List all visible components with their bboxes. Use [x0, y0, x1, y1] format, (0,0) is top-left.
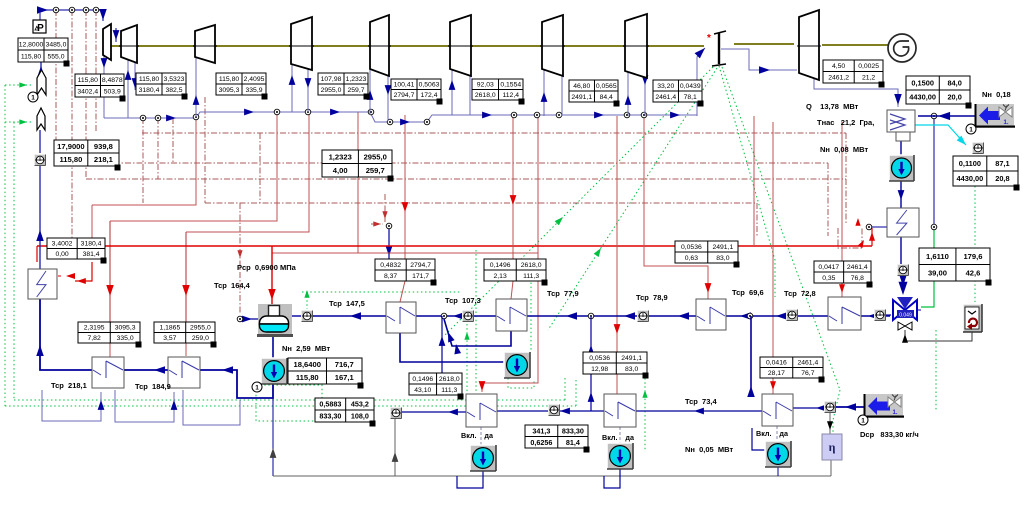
node collector x559 — [556, 112, 562, 118]
svg-text:115,80: 115,80 — [139, 76, 160, 83]
wire heater B riser — [590, 316, 592, 411]
table stage 6 — [472, 79, 523, 100]
svg-text:81,4: 81,4 — [566, 438, 580, 447]
heater 6 LPH — [696, 299, 726, 330]
deaerator — [258, 304, 292, 335]
wire green deaerator vent horizontal — [302, 291, 460, 293]
svg-text:833,30: 833,30 — [319, 412, 341, 421]
wire green vertical pump 5 vent — [530, 262, 532, 352]
wire gland steam dash-dot horizontal y179 — [86, 178, 846, 180]
node top header 4 — [93, 7, 99, 13]
shaft line across stages — [119, 45, 139, 47]
wire feed pump discharge loop — [200, 370, 273, 398]
svg-text:112,4: 112,4 — [503, 92, 520, 99]
heater C drain cooler — [762, 394, 793, 426]
target before eta meter — [825, 402, 836, 413]
control valve — [893, 300, 905, 320]
svg-text:172,4: 172,4 — [420, 92, 437, 99]
wire gland steam vertical right x846 — [845, 133, 847, 225]
wire drain collector under turbine — [104, 112, 697, 122]
svg-text:78,1: 78,1 — [684, 94, 697, 101]
svg-text:2618,0: 2618,0 — [475, 92, 496, 99]
svg-text:0,1496: 0,1496 — [490, 262, 511, 269]
wire valve outlet to green — [918, 309, 921, 311]
wire stage2 right leg — [134, 62, 136, 90]
wire extraction to heater 6 — [644, 116, 708, 299]
svg-text:381,4: 381,4 — [83, 251, 100, 258]
wire target to deaerator stub — [292, 315, 301, 317]
wire heater C riser — [750, 316, 752, 394]
wire extraction steam to heater A — [482, 116, 538, 392]
svg-text:3095,3: 3095,3 — [219, 87, 240, 94]
boiler symbol P — [33, 20, 46, 33]
wire pump A loop — [457, 470, 483, 488]
wire extraction to heater 3 table — [404, 115, 406, 259]
wire green air line left vertical 2 — [13, 122, 15, 400]
svg-text:0,0439: 0,0439 — [680, 83, 701, 90]
svg-text:555,0: 555,0 — [47, 53, 64, 60]
table heater 1 — [78, 322, 140, 343]
wire green air line bottom horizontal 1 — [14, 399, 565, 401]
svg-text:46,80: 46,80 — [573, 83, 590, 90]
svg-text:2,13: 2,13 — [494, 273, 507, 280]
target before heater A — [391, 408, 402, 419]
svg-text:4,50: 4,50 — [832, 63, 845, 70]
svg-text:2461,2: 2461,2 — [828, 75, 849, 82]
svg-text:2794,7: 2794,7 — [394, 92, 415, 99]
svg-text:0,1500: 0,1500 — [911, 79, 934, 88]
wire stage4 left leg — [291, 64, 293, 112]
pump C — [765, 441, 791, 467]
svg-text:17,9000: 17,9000 — [57, 142, 84, 151]
svg-text:Тср 72,8: Тср 72,8 — [784, 289, 816, 298]
wire eta meter drop — [829, 413, 831, 434]
table HX1 — [47, 238, 105, 259]
svg-text:0,00: 0,00 — [55, 251, 68, 258]
node top header 2 — [69, 7, 75, 13]
svg-text:84,4: 84,4 — [600, 94, 613, 101]
svg-text:115,80: 115,80 — [59, 155, 82, 164]
node ejector branch at gland cooler — [931, 224, 937, 230]
wire coupling to last stage — [721, 49, 797, 70]
svg-text:115,80: 115,80 — [296, 373, 319, 382]
gland steam cooler HX2 — [887, 208, 919, 237]
wire stage8 left leg — [627, 71, 629, 116]
svg-text:7,82: 7,82 — [88, 335, 101, 342]
wire stage5 right leg — [387, 69, 389, 121]
svg-text:1: 1 — [861, 418, 865, 425]
svg-text:2,4095: 2,4095 — [244, 76, 265, 83]
svg-text:76,7: 76,7 — [801, 370, 814, 377]
svg-text:2955,0: 2955,0 — [364, 152, 387, 161]
target before deaerator — [302, 311, 313, 322]
wire extraction header stage4 to heater 1 — [110, 111, 277, 221]
wire extraction to heater 7 — [841, 122, 843, 299]
wire HX1 to boiler via flag — [39, 166, 41, 269]
wire gland condensate to heater3 table — [388, 228, 390, 259]
svg-text:8,4878: 8,4878 — [102, 77, 123, 84]
wire green vertical heater4 vent — [466, 324, 468, 400]
svg-text:*: * — [707, 33, 711, 44]
wire gland steam dash-dot horizontal y163 — [56, 162, 828, 164]
svg-text:4430,00: 4430,00 — [957, 174, 984, 183]
svg-text:20,8: 20,8 — [995, 174, 1009, 183]
wire flag1 to boiler table — [40, 62, 42, 77]
wire stage4 right leg — [307, 64, 309, 112]
table heater 6 — [675, 241, 738, 263]
svg-text:453,2: 453,2 — [351, 400, 369, 409]
wire stage1 table to collector — [103, 97, 105, 118]
svg-text:2461,4: 2461,4 — [797, 360, 818, 367]
wire hotwell pump to gland cooler — [900, 181, 902, 208]
svg-text:3180,4: 3180,4 — [139, 87, 160, 94]
node deaerator inlet — [237, 316, 243, 322]
wire extraction header stage3 — [92, 116, 196, 205]
table stage 4 — [318, 73, 368, 95]
heater 2 HPH — [168, 357, 200, 388]
svg-text:1,6110: 1,6110 — [926, 252, 949, 261]
table boiler outlet — [18, 38, 68, 62]
svg-text:2491,1: 2491,1 — [712, 244, 733, 251]
node collector x514 — [511, 112, 517, 118]
turbine stage 6 — [450, 15, 471, 76]
svg-text:28,17: 28,17 — [768, 370, 785, 377]
svg-text:716,7: 716,7 — [335, 360, 354, 369]
svg-text:3180,4: 3180,4 — [81, 241, 102, 248]
svg-text:341,3: 341,3 — [532, 426, 550, 435]
flag 1 number — [28, 92, 38, 102]
wire extraction stage x754 — [753, 116, 755, 246]
wire gland steam vertical to node x385 — [384, 194, 386, 222]
svg-text:Тср 107,3: Тср 107,3 — [445, 296, 481, 305]
table feed pump big — [288, 358, 362, 384]
target before heater 4 — [463, 311, 474, 322]
wire stage1 outlet down to table — [103, 52, 105, 74]
node condensate x591 — [588, 313, 594, 319]
wire return line riser left — [272, 398, 274, 476]
wire stage3 left leg — [195, 57, 197, 117]
svg-text:2955,0: 2955,0 — [190, 325, 211, 332]
svg-text:0,1100: 0,1100 — [959, 159, 981, 168]
svg-text:83,0: 83,0 — [716, 255, 729, 262]
wire extraction header stage4b to heater 2 — [186, 112, 309, 232]
svg-text:259,7: 259,7 — [366, 166, 385, 175]
svg-text:η: η — [829, 440, 836, 454]
wire condenser to hotwell pump — [900, 141, 902, 155]
target before heater B — [549, 405, 560, 416]
svg-text:2461,4: 2461,4 — [847, 264, 868, 271]
wire stage6 right leg — [469, 69, 471, 115]
target symbol feed line — [35, 155, 46, 166]
svg-text:503,9: 503,9 — [104, 89, 121, 96]
wire target A riser — [394, 419, 396, 476]
table heater 7 — [814, 261, 871, 283]
heater 7 LPH — [828, 297, 861, 330]
coupling — [718, 33, 720, 64]
wire gland steam loop near ejector — [838, 228, 862, 248]
wire gland steam vertical x205 — [204, 97, 206, 203]
table makeup big — [953, 156, 1018, 186]
svg-text:167,1: 167,1 — [335, 373, 355, 382]
heat exchanger HX1 lightning — [28, 269, 57, 299]
svg-text:4,00: 4,00 — [333, 166, 348, 175]
wire green air line left vertical 1 — [4, 85, 6, 406]
wire green diagonal R1 from coupling — [719, 66, 775, 297]
svg-text:87,1: 87,1 — [995, 159, 1009, 168]
wire big double arrow to valve — [899, 273, 908, 286]
wire green vertical near heater B table — [644, 374, 646, 452]
svg-text:259,7: 259,7 — [347, 87, 364, 94]
target under gland cooler — [898, 265, 909, 276]
svg-text:Тср 77,9: Тср 77,9 — [547, 289, 579, 298]
svg-text:259,0: 259,0 — [192, 335, 209, 342]
svg-text:0,5883: 0,5883 — [319, 400, 341, 409]
table stage 3 — [216, 73, 266, 95]
wire stage6 left leg — [451, 69, 453, 115]
wire green dotted loop around feed pump — [256, 385, 322, 421]
table heater A — [409, 373, 462, 395]
svg-text:1,2323: 1,2323 — [346, 76, 367, 83]
svg-text:3,4002: 3,4002 — [52, 241, 73, 248]
turbine stage 3 — [195, 25, 215, 63]
flag symbol 2 — [37, 108, 45, 130]
heater 4 LPH — [496, 299, 527, 331]
table valve big — [919, 248, 990, 281]
wire icon to target right bottom — [836, 406, 864, 408]
wire feedwater heater1 to HX1 — [40, 299, 92, 370]
table stage 9 — [823, 60, 883, 83]
svg-text:8,37: 8,37 — [384, 273, 397, 280]
svg-text:76,8: 76,8 — [851, 275, 864, 282]
pump 5 drain pump — [504, 352, 530, 378]
svg-text:33,20: 33,20 — [657, 83, 674, 90]
pump B — [607, 443, 633, 469]
table heater 3 — [375, 259, 435, 281]
wire condensate bottom line y411 — [401, 411, 466, 413]
valve lower bowtie — [898, 322, 905, 330]
table stage 8 — [653, 80, 702, 102]
eta efficiency meter — [822, 434, 842, 460]
wire gland steam verticals from stage drains — [142, 118, 144, 203]
wire green diagonal D2 to coupling — [548, 68, 717, 330]
svg-text:0.049: 0.049 — [899, 313, 912, 319]
wire valve inlet from heater 7 target — [886, 314, 891, 316]
svg-text:83,0: 83,0 — [625, 366, 638, 373]
svg-text:108,0: 108,0 — [351, 412, 369, 421]
node collector x371 — [368, 109, 374, 115]
condenser — [887, 110, 915, 132]
heater B drain cooler — [604, 394, 636, 427]
wire drain cascade heater2 to feed line — [183, 390, 240, 425]
wire green into flag 2 — [5, 121, 33, 123]
svg-text:0,63: 0,63 — [685, 255, 698, 262]
wire condensate main line y316 — [313, 315, 890, 317]
target before heater 7 — [787, 310, 798, 321]
table heater 2 — [154, 322, 215, 343]
wire extraction steam into HX1 table — [91, 205, 93, 239]
wire stage7 right leg — [561, 69, 563, 116]
wire return line bottom — [273, 475, 831, 477]
wire feedwater heater2 to heater1 — [124, 369, 168, 371]
svg-text:115,80: 115,80 — [21, 53, 42, 60]
node collector x644 — [641, 112, 647, 118]
turbine shaft — [111, 45, 704, 47]
wire gland steam vertical x260 — [259, 133, 261, 203]
table stage 2 — [136, 73, 186, 95]
svg-text:833,30: 833,30 — [562, 426, 584, 435]
wire stage8 right leg — [644, 71, 646, 116]
pump A — [470, 445, 496, 471]
wire main red header — [37, 245, 872, 247]
table deaerator steam big — [322, 150, 392, 177]
wire stage5 left leg — [369, 69, 371, 115]
turbine stage 5 — [370, 15, 389, 76]
svg-text:2794,7: 2794,7 — [410, 262, 431, 269]
svg-text:Nн 0,05 МВт: Nн 0,05 МВт — [685, 445, 733, 454]
wire extraction to heater 4 table — [512, 115, 514, 259]
svg-text:0,0536: 0,0536 — [589, 355, 610, 362]
node condensate x444 — [441, 313, 447, 319]
svg-text:20,0: 20,0 — [947, 93, 961, 102]
node collector x308 — [305, 109, 311, 115]
svg-text:43,10: 43,10 — [414, 387, 431, 394]
node gland condensate — [386, 223, 392, 229]
wire green dotted under pump 5 — [508, 378, 534, 388]
wire stage7 left leg — [543, 69, 545, 116]
svg-text:Тнас 21,2 Гра,: Тнас 21,2 Гра, — [817, 118, 874, 127]
svg-text:0,1496: 0,1496 — [412, 376, 433, 383]
svg-text:2461,4: 2461,4 — [655, 94, 676, 101]
turbine stage 9 LP — [799, 10, 819, 80]
wire green air line bottom horizontal 2 — [5, 405, 576, 407]
node collector x537 — [534, 112, 540, 118]
svg-text:0,6256: 0,6256 — [530, 438, 552, 447]
wire green diagonal D3 to eta meter — [722, 67, 840, 390]
wire green stub up to pump 5 region — [564, 378, 566, 400]
svg-text:2,3195: 2,3195 — [84, 325, 105, 332]
node ejector branch top — [931, 113, 937, 119]
svg-text:2618,0: 2618,0 — [521, 262, 542, 269]
table heater C — [760, 357, 823, 378]
svg-text:0,5063: 0,5063 — [419, 82, 440, 89]
hotwell pump — [889, 155, 914, 181]
flag symbol 1 — [37, 70, 46, 95]
node ejector junction — [866, 224, 872, 230]
table condensate big — [315, 398, 374, 422]
svg-text:2955,0: 2955,0 — [321, 87, 342, 94]
wire top boiler outlet header — [37, 10, 103, 21]
generator G — [888, 34, 916, 62]
svg-text:1: 1 — [255, 385, 259, 392]
node collector x158 — [155, 115, 161, 121]
wire deaerator inlet stub — [240, 318, 258, 320]
target after heater 7 — [875, 310, 886, 321]
svg-text:115,80: 115,80 — [219, 76, 240, 83]
wire pump C inlet — [752, 428, 766, 450]
wire extraction to heater B — [616, 116, 618, 352]
svg-text:115,80: 115,80 — [78, 77, 99, 84]
svg-text:1.: 1. — [1003, 120, 1008, 126]
wire collector riser to coupling gland — [697, 48, 705, 116]
turbine stage 7 — [542, 15, 563, 76]
svg-text:3485,0: 3485,0 — [46, 41, 67, 48]
svg-text:2491,1: 2491,1 — [571, 94, 592, 101]
turbine stage 8 — [625, 14, 647, 78]
node collector x277 — [274, 109, 280, 115]
svg-text:39,00: 39,00 — [928, 268, 947, 277]
feed pump — [261, 358, 287, 384]
node collector x143 — [140, 115, 146, 121]
svg-text:335,9: 335,9 — [245, 87, 262, 94]
heater A drain cooler — [466, 394, 497, 427]
svg-text:Рср 0,6900 МПа: Рср 0,6900 МПа — [237, 263, 297, 272]
wire gland steam verticals from top collector — [55, 10, 57, 163]
recirculation icon — [963, 304, 982, 332]
svg-text:100,41: 100,41 — [394, 82, 415, 89]
svg-text:107,98: 107,98 — [321, 76, 342, 83]
wire heater3 drain to pump5 — [400, 333, 506, 362]
svg-text:1: 1 — [31, 95, 35, 102]
svg-text:2618,0: 2618,0 — [439, 376, 460, 383]
svg-text:382,5: 382,5 — [165, 87, 182, 94]
wire drain cascade HX1 to heater1 — [42, 390, 101, 421]
wire ejector junction into gland cooler — [869, 226, 887, 228]
svg-text:Вкл. да: Вкл. да — [602, 433, 635, 442]
wire gland cooler to target sym — [900, 237, 902, 264]
svg-text:0,4832: 0,4832 — [380, 262, 401, 269]
wire red riser to ejector junction — [871, 228, 873, 246]
svg-text:Nн 2,59 МВт: Nн 2,59 МВт — [282, 344, 330, 353]
svg-text:0,0025: 0,0025 — [858, 63, 879, 70]
wire pump B loop — [604, 468, 620, 488]
svg-text:Тср 147,5: Тср 147,5 — [329, 299, 365, 308]
svg-text:84,0: 84,0 — [947, 79, 961, 88]
makeup water icon 1 — [976, 104, 1014, 127]
svg-text:111,3: 111,3 — [523, 273, 539, 280]
svg-text:111,3: 111,3 — [441, 387, 457, 394]
svg-text:1: 1 — [969, 127, 973, 134]
turbine stage 2 — [121, 25, 137, 63]
svg-text:Тср 78,9: Тср 78,9 — [636, 293, 668, 302]
svg-text:3095,3: 3095,3 — [115, 325, 136, 332]
target cyan makeup — [973, 143, 984, 154]
svg-text:179,6: 179,6 — [963, 252, 982, 261]
heater 3 LPH — [386, 302, 416, 333]
svg-text:Тср 69,6: Тср 69,6 — [732, 288, 764, 297]
svg-text:0,0565: 0,0565 — [596, 83, 617, 90]
svg-text:4430,00: 4430,00 — [909, 93, 936, 102]
svg-text:0,0417: 0,0417 — [818, 264, 839, 271]
node collector x196 — [193, 114, 199, 120]
wire heater4 drain to condensate node — [444, 319, 511, 346]
svg-text:1.: 1. — [892, 410, 897, 416]
node collector x427 — [424, 119, 430, 125]
wire feedwater deaerator to pump — [272, 332, 274, 359]
heater 1 HPH — [92, 357, 124, 388]
table stage 1 — [75, 74, 124, 97]
svg-text:0,0536: 0,0536 — [681, 244, 702, 251]
svg-text:939,8: 939,8 — [94, 142, 113, 151]
svg-text:3402,4: 3402,4 — [77, 89, 98, 96]
svg-text:171,7: 171,7 — [412, 273, 429, 280]
wire extraction header stage5 y253 — [272, 112, 358, 253]
wire gland steam vertical x757 — [756, 203, 758, 236]
feed pump number — [252, 382, 262, 392]
svg-text:3,57: 3,57 — [163, 335, 176, 342]
wire cyan makeup line — [915, 125, 966, 145]
svg-text:12,98: 12,98 — [591, 366, 608, 373]
svg-text:218,1: 218,1 — [94, 155, 114, 164]
